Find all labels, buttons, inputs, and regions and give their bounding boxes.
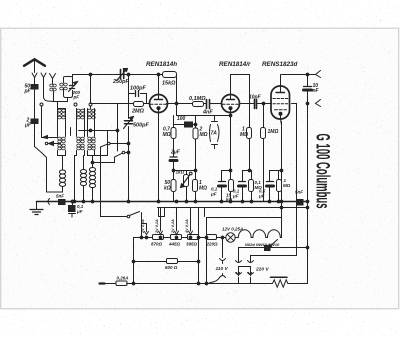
ground <box>36 202 38 210</box>
svg-text:2V 0,1A: 2V 0,1A <box>171 219 175 234</box>
svg-text:7A: 7A <box>211 131 218 137</box>
wire 110V tap <box>222 238 224 258</box>
anode wire <box>167 103 193 105</box>
heater chain rail <box>134 237 239 239</box>
heater tap 2 <box>159 208 163 235</box>
wire <box>34 124 36 147</box>
svg-text:15kΩ: 15kΩ <box>162 81 176 87</box>
regulator line <box>239 247 308 249</box>
resistor 395 <box>188 235 199 240</box>
svg-text:870Ω: 870Ω <box>151 242 163 247</box>
coil terminal <box>40 103 43 106</box>
wire grid from coils <box>91 103 129 105</box>
switch arrow contact 1 <box>43 137 58 139</box>
wire y192 <box>47 191 63 193</box>
tube REN1814h triode U1 <box>150 95 168 113</box>
anode top rail tube2 <box>231 75 250 128</box>
capacitor 5nF input <box>59 200 66 205</box>
resistor 15k <box>159 75 177 104</box>
capacitor 2uF <box>31 119 38 124</box>
speaker jack 2 <box>316 100 321 107</box>
capacitor 100pF detector <box>174 124 196 126</box>
svg-text:nF: nF <box>313 88 320 94</box>
resistor 220 <box>207 235 217 240</box>
variable capacitor 250pF <box>121 70 124 79</box>
110V socket bottom <box>220 276 226 278</box>
110V socket top <box>220 259 226 261</box>
svg-text:μF: μF <box>258 194 265 199</box>
resistor 445 <box>171 235 182 240</box>
svg-text:2V 0,1A: 2V 0,1A <box>141 219 145 234</box>
coupling capacitor 10pF <box>240 103 272 105</box>
svg-text:0,26A: 0,26A <box>117 276 129 281</box>
band coil assembly A3 <box>88 109 95 137</box>
capacitor 10nF <box>307 75 309 87</box>
220V pins <box>236 258 242 263</box>
variable capacitor 500pF <box>128 75 130 202</box>
second ground rail <box>158 207 308 209</box>
svg-text:MΩ: MΩ <box>163 132 171 138</box>
svg-text:2MΩ: 2MΩ <box>131 109 145 115</box>
tuned loop 1 coil <box>60 83 64 86</box>
cathode RC pair 3 <box>270 170 282 172</box>
svg-text:0,1MΩ: 0,1MΩ <box>189 96 206 102</box>
wire antenna down <box>34 89 36 119</box>
svg-text:kΩ: kΩ <box>226 197 233 202</box>
pickup jack <box>41 201 47 203</box>
wire to top rail <box>73 75 159 77</box>
svg-text:REN1814/r: REN1814/r <box>219 61 251 68</box>
svg-text:MΩ: MΩ <box>200 132 208 138</box>
svg-text:μF: μF <box>232 194 239 199</box>
svg-text:μF: μF <box>210 192 217 197</box>
svg-text:MΩ: MΩ <box>283 183 291 188</box>
capacitor 5nF output <box>298 200 304 206</box>
svg-text:220Ω: 220Ω <box>206 242 219 247</box>
svg-text:pF: pF <box>24 89 32 95</box>
capacitor 2uF detector out <box>170 156 177 158</box>
oscillator coil C2 <box>83 156 85 202</box>
svg-text:5nF: 5nF <box>56 194 64 199</box>
tube3 cathode <box>281 114 282 238</box>
tube REN1814 U2 <box>222 95 240 113</box>
resistor 50k <box>173 171 175 202</box>
svg-text:μF: μF <box>24 123 32 129</box>
resistor 2M <box>195 116 197 129</box>
svg-text:4nF: 4nF <box>202 110 213 116</box>
capacitor 50pF <box>31 85 38 90</box>
bus junction dots <box>71 200 74 203</box>
svg-text:4V 0,1A: 4V 0,1A <box>185 219 189 234</box>
output top rail <box>282 74 316 76</box>
heater element barretter <box>271 276 288 278</box>
svg-text:G 100 Columbus: G 100 Columbus <box>312 134 333 209</box>
svg-text:1kΩ: 1kΩ <box>176 170 185 175</box>
svg-text:REN1814h: REN1814h <box>146 61 177 68</box>
svg-text:250pF: 250pF <box>112 79 130 85</box>
heater tap 1 <box>145 224 149 235</box>
wire left branch <box>75 156 77 202</box>
wire jack line down <box>307 104 309 248</box>
screen supply wire <box>251 255 297 257</box>
speaker jack 1 <box>316 71 321 78</box>
left chain vertical <box>133 238 135 284</box>
tube1 cathode wire <box>158 113 160 202</box>
svg-text:MΩ: MΩ <box>240 132 248 138</box>
screen grid wire <box>292 104 297 256</box>
svg-text:10pF: 10pF <box>249 95 262 101</box>
switch arm antenna <box>35 147 47 193</box>
svg-text:100: 100 <box>177 116 186 122</box>
svg-text:445Ω: 445Ω <box>168 242 181 247</box>
antenna tap 3 connector <box>50 74 56 84</box>
line down from y218 <box>281 218 283 238</box>
svg-text:kΩ: kΩ <box>164 186 171 192</box>
trimmer capacitor 200pF <box>70 86 75 89</box>
antenna <box>24 59 45 66</box>
detector feed rail <box>176 104 178 116</box>
antenna plug connector 1 <box>32 73 37 85</box>
cathode RC pair 2 <box>243 170 250 172</box>
band switch 2 contact a <box>101 144 108 147</box>
resistor 1M anode load <box>247 128 252 139</box>
node junction x72 <box>71 200 74 203</box>
main ground bus <box>37 201 308 203</box>
svg-text:220 V: 220 V <box>255 267 269 273</box>
tube RENS1823d pentode U3 <box>271 86 290 119</box>
heater tap 3 <box>175 208 179 235</box>
oscillator coil C1 <box>62 156 64 193</box>
resistor 870 <box>153 235 164 240</box>
svg-text:2μF: 2μF <box>170 150 181 156</box>
band coil assembly A2 <box>77 109 85 137</box>
IF section wires <box>117 104 119 152</box>
voltage tap arrow <box>265 246 271 251</box>
svg-text:12V 0,25A: 12V 0,25A <box>222 227 243 232</box>
coupling capacitor 4nF <box>204 103 222 105</box>
arrester 7A <box>214 116 216 149</box>
antenna tap 2 connector <box>41 73 54 102</box>
node top rail junction <box>157 73 160 76</box>
coil terminals top <box>74 103 77 106</box>
svg-text:110 V: 110 V <box>216 266 229 272</box>
svg-text:pF: pF <box>73 95 80 100</box>
resistor 0.1M <box>193 102 204 107</box>
potentiometer volume <box>186 171 188 202</box>
svg-text:5nF: 5nF <box>295 190 303 195</box>
resistor 0.7M <box>173 116 175 128</box>
600 ohm resistor <box>134 261 199 263</box>
grid capacitor 100pF with 2M resistor parallel <box>129 93 147 95</box>
svg-text:395Ω: 395Ω <box>186 242 198 247</box>
wire y170 <box>174 170 196 172</box>
svg-text:μF: μF <box>76 209 83 214</box>
capacitor 0.1uF to ground <box>72 202 74 206</box>
band switch 2 contact b <box>122 151 125 154</box>
switch arrow contact 2 <box>45 142 47 144</box>
antenna coil L1 <box>50 84 54 87</box>
cathode RC pair 1 <box>222 170 232 172</box>
power switch <box>101 216 127 218</box>
dial lamp 12V <box>226 233 235 242</box>
band switch feed <box>100 147 102 217</box>
svg-text:1MΩ: 1MΩ <box>268 129 279 135</box>
heater tap 4 <box>189 208 193 235</box>
svg-text:500pF: 500pF <box>133 123 150 129</box>
fuse 0.26A <box>100 283 116 285</box>
ballast chokes <box>238 230 282 238</box>
svg-text:N02d NW10 NW10: N02d NW10 NW10 <box>245 242 280 247</box>
svg-text:100pF: 100pF <box>130 86 147 92</box>
oscillator coil C3 <box>92 156 94 202</box>
svg-text:2V 0,1A: 2V 0,1A <box>155 219 159 234</box>
resistor 1M grid tube3 <box>263 104 265 202</box>
svg-text:MΩ: MΩ <box>199 186 207 192</box>
band coil assembly A1 <box>58 109 66 137</box>
resistor 1M AF <box>195 171 197 202</box>
svg-text:RENS1823d: RENS1823d <box>262 61 298 68</box>
svg-text:600 Ω: 600 Ω <box>165 265 178 270</box>
